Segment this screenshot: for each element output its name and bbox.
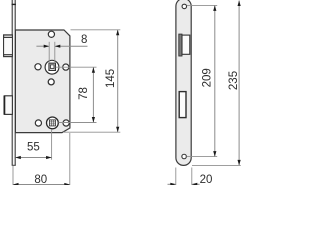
dim 20: line and arrows [168,183,176,185]
dim 78: line and arrows [92,68,94,123]
left small hole [35,64,41,70]
deadbolt (protruding) [4,96,12,115]
svg-text:80: 80 [34,174,47,185]
lower left small hole [35,120,41,126]
svg-text:8: 8 [81,34,87,46]
dim 55: extension line [51,129,53,159]
dim 20: extension lines [175,168,177,186]
faceplate (front view) [176,0,191,165]
dim 235: line and arrows [238,1,240,166]
dim 209: line and arrows [214,6,216,156]
WC follower (knurled) [47,117,59,129]
dim 145: line and arrows [117,30,119,132]
deadbolt cutout [179,92,186,118]
square spindle hole [49,63,55,70]
dim 235: extension lines [192,164,241,166]
top hole [48,31,54,37]
dim 80: line and arrows [13,184,70,186]
latch cutout: face [182,35,190,54]
dim 8: extension lines from square [48,42,50,64]
dim 55: line and arrows [16,157,52,159]
dim 209: extension lines [187,4,217,6]
faceplate edge strip (side view) [12,0,15,165]
bottom screw hole [182,154,187,159]
dim 78: extension lines [56,66,97,68]
dim 80: extension lines [12,166,14,185]
lock case body (side view) [15,30,70,133]
faceplate top tick [12,3,16,5]
middle hole [48,79,54,85]
wire [14,0,16,165]
svg-text:20: 20 [200,174,213,185]
dim 8: dimension lines and arrows [36,45,48,47]
latch bolt (protruding) [4,35,13,57]
svg-text:55: 55 [27,141,40,153]
svg-text:209: 209 [202,68,214,87]
square follower circle [45,60,59,74]
dim 145: extension lines [71,29,121,31]
svg-text:235: 235 [228,71,240,90]
latch cutout: bevel bar [179,34,182,56]
lower right small hole [63,120,69,126]
svg-text:145: 145 [105,69,117,88]
faceplate bottom cap [12,164,16,166]
wire [11,0,13,165]
svg-text:78: 78 [78,87,90,100]
top screw hole [182,4,187,8]
right small hole [63,64,69,70]
